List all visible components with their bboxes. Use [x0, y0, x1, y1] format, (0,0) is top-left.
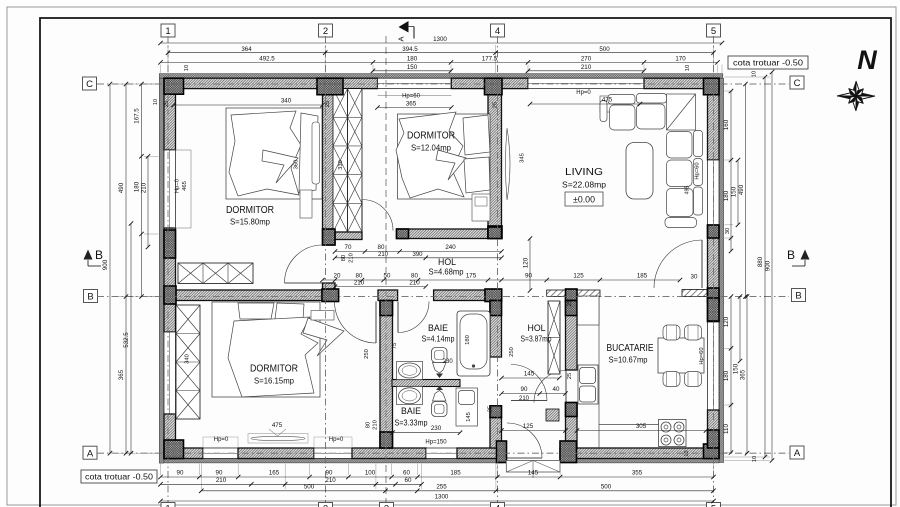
svg-text:270: 270: [581, 56, 592, 63]
svg-text:255: 255: [436, 484, 447, 491]
svg-text:492.5: 492.5: [259, 56, 275, 63]
svg-text:180: 180: [407, 56, 418, 63]
svg-text:175: 175: [466, 273, 477, 280]
svg-text:A: A: [794, 448, 801, 459]
svg-text:210: 210: [141, 182, 148, 193]
svg-text:2: 2: [323, 26, 328, 37]
svg-text:Hp=0: Hp=0: [576, 90, 591, 96]
svg-text:305: 305: [636, 423, 647, 430]
svg-text:25: 25: [567, 300, 573, 306]
svg-text:Hp=60: Hp=60: [402, 94, 421, 100]
svg-text:B: B: [795, 291, 801, 302]
svg-text:30: 30: [725, 228, 731, 234]
svg-text:80: 80: [356, 273, 363, 280]
svg-text:180: 180: [723, 370, 730, 381]
svg-text:10: 10: [685, 65, 691, 71]
svg-text:S=16.15mp: S=16.15mp: [254, 376, 294, 386]
svg-text:210: 210: [581, 64, 592, 71]
svg-text:180: 180: [134, 181, 141, 192]
svg-text:1: 1: [165, 504, 170, 507]
svg-text:90: 90: [521, 386, 528, 393]
svg-text:HOL: HOL: [528, 323, 546, 334]
svg-text:cota trotuar -0.50: cota trotuar -0.50: [733, 58, 803, 67]
svg-text:90: 90: [525, 273, 532, 280]
svg-text:90: 90: [326, 469, 333, 476]
svg-text:120: 120: [723, 316, 730, 327]
svg-text:C: C: [86, 79, 93, 90]
svg-text:Hp=0: Hp=0: [214, 437, 229, 443]
svg-text:10: 10: [184, 65, 190, 71]
svg-text:Hp=0: Hp=0: [175, 179, 181, 193]
svg-text:90: 90: [216, 469, 223, 476]
svg-text:Hp=60: Hp=60: [699, 347, 705, 364]
svg-text:Hp=0: Hp=0: [329, 437, 344, 443]
svg-text:165: 165: [269, 469, 280, 476]
svg-text:Hp=150: Hp=150: [425, 440, 447, 446]
svg-text:145: 145: [528, 469, 539, 476]
svg-text:25: 25: [488, 406, 494, 412]
svg-text:BAIE: BAIE: [428, 323, 448, 334]
svg-text:500: 500: [601, 484, 612, 491]
svg-text:Hp=60: Hp=60: [695, 162, 701, 179]
svg-text:75: 75: [392, 343, 398, 349]
svg-text:330: 330: [338, 160, 344, 170]
svg-text:900: 900: [765, 260, 772, 271]
svg-text:110: 110: [723, 424, 730, 434]
svg-text:125: 125: [573, 273, 584, 280]
svg-text:180: 180: [465, 335, 471, 345]
svg-text:S=4.14mp: S=4.14mp: [422, 334, 455, 344]
svg-text:S=10.67mp: S=10.67mp: [609, 355, 648, 365]
svg-text:180: 180: [723, 190, 730, 201]
svg-text:90: 90: [177, 469, 184, 476]
svg-text:230: 230: [443, 359, 454, 365]
svg-text:10: 10: [684, 450, 690, 456]
svg-text:490: 490: [738, 184, 745, 195]
svg-text:230: 230: [431, 425, 442, 432]
svg-text:475: 475: [272, 422, 283, 429]
svg-text:BUCATARIE: BUCATARIE: [607, 342, 654, 354]
svg-text:25: 25: [325, 101, 331, 107]
svg-text:340: 340: [185, 354, 191, 364]
svg-text:S=12.04mp: S=12.04mp: [411, 143, 451, 153]
svg-text:10: 10: [153, 99, 159, 105]
svg-text:150: 150: [733, 363, 740, 374]
svg-text:60: 60: [405, 477, 412, 484]
svg-text:500: 500: [304, 484, 315, 491]
svg-text:125: 125: [523, 423, 534, 430]
svg-text:1300: 1300: [435, 494, 449, 501]
svg-text:80: 80: [366, 422, 372, 428]
svg-text:80: 80: [378, 244, 385, 251]
svg-text:240: 240: [445, 244, 456, 251]
svg-text:S=22.08mp: S=22.08mp: [562, 180, 606, 190]
svg-text:C: C: [794, 78, 801, 89]
svg-text:365: 365: [406, 101, 417, 108]
svg-text:900: 900: [102, 259, 109, 270]
svg-text:210: 210: [519, 396, 530, 402]
svg-text:475: 475: [602, 97, 613, 104]
svg-text:167.5: 167.5: [134, 108, 141, 124]
svg-text:490: 490: [118, 182, 125, 193]
svg-text:BAIE: BAIE: [401, 406, 421, 417]
svg-text:LIVING: LIVING: [565, 166, 603, 178]
svg-text:N: N: [857, 45, 877, 75]
svg-text:1300: 1300: [433, 36, 447, 43]
svg-text:150: 150: [731, 186, 738, 197]
svg-text:A: A: [87, 448, 94, 459]
svg-text:DORMITOR: DORMITOR: [250, 363, 298, 375]
svg-text:170: 170: [675, 56, 686, 63]
svg-text:S=4.68mp: S=4.68mp: [429, 267, 464, 277]
svg-text:80: 80: [411, 273, 418, 280]
svg-text:B: B: [787, 248, 795, 262]
svg-text:345: 345: [520, 153, 526, 163]
svg-text:80: 80: [341, 255, 347, 261]
svg-text:2: 2: [323, 504, 328, 507]
svg-text:150: 150: [407, 64, 418, 71]
svg-text:DORMITOR: DORMITOR: [407, 130, 455, 142]
svg-text:3: 3: [384, 504, 389, 507]
svg-text:5: 5: [711, 504, 716, 507]
svg-text:S=3.33mp: S=3.33mp: [395, 418, 428, 428]
svg-text:210: 210: [354, 280, 365, 287]
svg-text:25: 25: [493, 102, 499, 108]
svg-text:185: 185: [637, 273, 648, 280]
svg-text:210: 210: [325, 477, 336, 484]
svg-text:S=3.87mp: S=3.87mp: [521, 334, 552, 344]
svg-text:25: 25: [164, 101, 170, 107]
svg-text:880: 880: [757, 256, 764, 267]
svg-text:145: 145: [466, 412, 472, 422]
svg-text:495: 495: [685, 186, 691, 195]
svg-text:210: 210: [349, 253, 355, 263]
svg-text:360: 360: [294, 160, 300, 170]
svg-text:50: 50: [384, 273, 391, 280]
svg-text:1: 1: [165, 26, 170, 37]
svg-text:25: 25: [567, 373, 573, 379]
svg-text:10: 10: [752, 456, 758, 462]
svg-text:20: 20: [334, 273, 341, 280]
svg-text:145: 145: [524, 371, 535, 378]
svg-text:364: 364: [241, 46, 252, 53]
svg-text:160: 160: [723, 119, 730, 130]
svg-text:4: 4: [495, 504, 500, 507]
svg-text:120: 120: [523, 257, 530, 268]
svg-text:cota trotuar -0.50: cota trotuar -0.50: [85, 472, 153, 481]
svg-text:60: 60: [403, 469, 410, 476]
svg-text:5: 5: [711, 26, 716, 37]
svg-text:250: 250: [364, 349, 370, 359]
svg-text:394.5: 394.5: [402, 46, 418, 53]
svg-text:365: 365: [740, 369, 747, 380]
svg-text:A: A: [397, 36, 406, 41]
svg-text:210: 210: [378, 252, 389, 258]
svg-text:B: B: [87, 292, 93, 303]
svg-text:365: 365: [118, 369, 125, 380]
svg-text:177.5: 177.5: [482, 56, 498, 63]
svg-text:70: 70: [345, 244, 352, 251]
svg-text:210: 210: [373, 420, 379, 430]
svg-text:250: 250: [509, 347, 515, 357]
svg-text:S=15.80mp: S=15.80mp: [230, 217, 270, 227]
svg-text:185: 185: [450, 469, 461, 476]
svg-text:100: 100: [365, 469, 376, 476]
svg-text:500: 500: [599, 46, 610, 53]
svg-text:390: 390: [412, 252, 423, 258]
svg-text:DORMITOR: DORMITOR: [226, 204, 274, 216]
svg-text:30: 30: [691, 274, 698, 281]
svg-text:210: 210: [216, 477, 227, 484]
svg-text:10: 10: [752, 71, 758, 77]
svg-text:40: 40: [553, 386, 560, 393]
svg-text:465: 465: [182, 181, 188, 191]
svg-text:±0.00: ±0.00: [573, 195, 595, 205]
svg-text:532.5: 532.5: [123, 332, 130, 348]
svg-text:355: 355: [632, 469, 643, 476]
svg-text:4: 4: [495, 26, 500, 37]
svg-text:340: 340: [281, 98, 292, 105]
svg-text:210: 210: [409, 280, 420, 287]
